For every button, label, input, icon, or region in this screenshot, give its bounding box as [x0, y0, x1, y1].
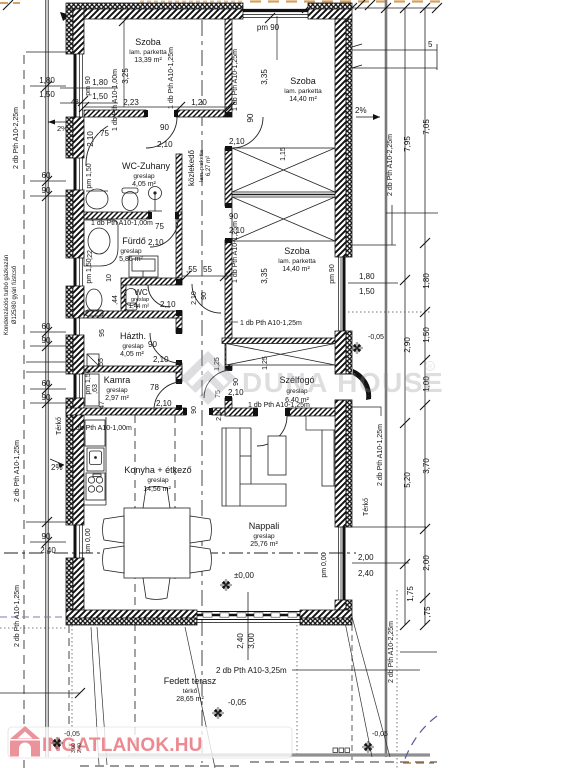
svg-text:-0,05: -0,05 [372, 731, 388, 738]
svg-text:14,56 m²: 14,56 m² [143, 486, 171, 493]
svg-text:pm 1,50: pm 1,50 [86, 258, 93, 283]
svg-text:2,00: 2,00 [422, 555, 431, 571]
right wall window (pm90) [339, 257, 345, 600]
svg-text:90: 90 [201, 292, 208, 300]
wardrobe divider line top-right rooms [232, 194, 335, 196]
svg-text:1 db Pth A10-1,25m: 1 db Pth A10-1,25m [248, 402, 310, 409]
kitchen window W6 [74, 525, 77, 558]
svg-text:2,00: 2,00 [358, 553, 374, 562]
left margin horizontal dim segs [0, 52, 80, 693]
svg-text:2 db Pth A10-2,25m: 2 db Pth A10-2,25m [13, 107, 20, 169]
corridor left wall (x=176-182) blocks [176, 154, 182, 284]
in-plan dimension texts [71, 23, 280, 408]
svg-text:90: 90 [229, 212, 238, 221]
svg-text:90: 90 [42, 186, 51, 195]
svg-text:Szoba: Szoba [135, 37, 161, 47]
corridor right wall (x=225-232) blocks [225, 19, 232, 117]
szélfogó bottom wall (y=408-416) [225, 408, 257, 416]
kamra door [154, 382, 182, 410]
rotated in-plan dims [85, 47, 287, 554]
svg-text:2,10: 2,10 [191, 291, 198, 305]
window W2 [74, 158, 77, 190]
svg-text:1,50: 1,50 [359, 287, 375, 296]
svg-text:2,40: 2,40 [236, 633, 245, 649]
wall arrows right top [352, 44, 362, 47]
small dim helper lines [60, 16, 277, 276]
svg-text:2,10: 2,10 [157, 140, 173, 149]
wall kamra/konyha (y=408-415) [66, 408, 186, 415]
svg-text:-0,05: -0,05 [368, 334, 384, 341]
bottom wall left segment [66, 610, 197, 618]
wall szoba-L bottom (y=110-117) [84, 110, 146, 117]
szélfogó bench X box [226, 344, 335, 366]
svg-text:WC-Zuhany: WC-Zuhany [122, 161, 171, 171]
svg-text:Szoba: Szoba [284, 246, 310, 256]
svg-text:lam. parketta: lam. parketta [199, 149, 205, 182]
right wall blocks [335, 19, 352, 610]
fürdő washbasin / washer [129, 256, 158, 277]
svg-text:,75: ,75 [423, 606, 432, 618]
svg-text:4,05 m²: 4,05 m² [120, 351, 144, 358]
svg-text:2,40: 2,40 [40, 546, 56, 555]
left rotated texts [4, 107, 68, 647]
svg-text:7,05: 7,05 [422, 119, 431, 135]
svg-text:Konyha + étkező: Konyha + étkező [124, 465, 191, 475]
svg-text:,22: ,22 [87, 250, 94, 260]
svg-text:Kondenzációs turbó gázkazán: Kondenzációs turbó gázkazán [4, 255, 10, 335]
svg-text:lam. parketta: lam. parketta [129, 49, 167, 56]
svg-text:2,90: 2,90 [403, 337, 412, 353]
svg-text:Kamra: Kamra [104, 375, 131, 385]
szoba-L door [146, 117, 177, 148]
wall házth/kamra (y=366-372) [84, 366, 182, 372]
svg-text:1,44 m²: 1,44 m² [129, 304, 149, 310]
svg-text:2%: 2% [355, 106, 367, 115]
svg-text:greslap: greslap [122, 343, 144, 350]
svg-text:,55: ,55 [98, 358, 105, 368]
svg-text:Szoba: Szoba [290, 76, 316, 86]
szoba-R top door [232, 117, 263, 148]
fürdő door [150, 219, 178, 247]
sideboard right wall [322, 425, 334, 486]
svg-text:60: 60 [42, 379, 51, 388]
INGATLANOK.HU watermark [8, 727, 292, 758]
svg-text:48: 48 [71, 99, 79, 106]
svg-text:pm 90: pm 90 [85, 76, 92, 96]
svg-text:1,50: 1,50 [422, 327, 431, 343]
svg-text:lam. parketta: lam. parketta [278, 258, 316, 265]
nappali rug/table by wall top [306, 416, 335, 430]
wardrobe X box 2 [232, 197, 335, 241]
sink [87, 448, 104, 471]
svg-text:1 db Pth A10-1,00m: 1 db Pth A10-1,00m [91, 220, 153, 227]
svg-text:DUNA HOUSE: DUNA HOUSE [242, 367, 444, 398]
terrace bottom thick gray [98, 753, 430, 756]
svg-text:1 db Pth A10-1,25m: 1 db Pth A10-1,25m [232, 49, 239, 111]
top wall right corner segment [308, 3, 352, 9]
WC toilet [124, 289, 138, 306]
wall fürdő top (y=212-219) [84, 212, 150, 219]
top-left corner tick [3, 0, 13, 10]
svg-text:90: 90 [42, 336, 51, 345]
svg-text:greslap: greslap [133, 173, 155, 180]
door arcs [86, 117, 369, 446]
WC-Zuhany toilet [122, 192, 138, 211]
svg-text:pm 1,50: pm 1,50 [85, 369, 92, 394]
orange boundary dashes top [250, 0, 440, 2]
svg-text:Térkő: Térkő [56, 417, 63, 435]
svg-text:2,10: 2,10 [156, 399, 172, 408]
terrace sliding door [197, 612, 300, 623]
orange dashes bottom right [403, 762, 434, 764]
szélfogó door from corridor [204, 370, 232, 398]
svg-text:2 db Pth A10-2,25m: 2 db Pth A10-2,25m [388, 621, 395, 683]
svg-text:3,35: 3,35 [260, 268, 269, 284]
WC-Zuhany shower [149, 187, 162, 200]
svg-text:lam. parketta: lam. parketta [284, 88, 322, 95]
svg-text:3,00: 3,00 [247, 633, 256, 649]
left blue dashed + dotted bottom [0, 616, 66, 618]
svg-text:,44: ,44 [112, 295, 119, 305]
fürdő toilet (left wall) [86, 289, 102, 311]
svg-text:1,80: 1,80 [92, 78, 108, 87]
stove [86, 473, 105, 500]
svg-text:pm 1,50: pm 1,50 [86, 163, 93, 188]
window W5 [74, 374, 77, 398]
svg-text:pm 0,00: pm 0,00 [85, 528, 92, 553]
svg-text:1 db Pth A10-1,25m: 1 db Pth A10-1,25m [168, 47, 175, 109]
svg-text:,55: ,55 [186, 265, 198, 274]
sofa L [222, 428, 286, 506]
svg-text:1,20: 1,20 [191, 98, 207, 107]
svg-text:2,40: 2,40 [358, 569, 374, 578]
dashed bottom line [250, 761, 437, 763]
svg-text:2 db Pth A10-1,25m: 2 db Pth A10-1,25m [377, 424, 384, 486]
svg-text:2,10: 2,10 [229, 137, 245, 146]
svg-text:greslap: greslap [120, 248, 142, 255]
small squares [333, 748, 350, 753]
fürdő corner bathtub [84, 220, 118, 266]
top margin ticks [302, 3, 312, 13]
svg-text:greslap: greslap [131, 297, 149, 303]
svg-text:greslap: greslap [253, 533, 275, 540]
svg-text:7,95: 7,95 [403, 136, 412, 152]
svg-text:95: 95 [99, 329, 106, 337]
svg-text:1 db Pth A10-1,25m: 1 db Pth A10-1,25m [232, 221, 239, 283]
svg-text:60: 60 [42, 171, 51, 180]
svg-text:2,10: 2,10 [216, 407, 223, 421]
window W1 pm90 [74, 54, 77, 117]
svg-text:2,10: 2,10 [86, 131, 95, 147]
dining table [124, 508, 190, 578]
svg-text:4,05 m²: 4,05 m² [132, 181, 156, 188]
svg-text:greslap: greslap [106, 387, 128, 394]
svg-text:±0,00: ±0,00 [234, 571, 255, 580]
svg-text:25,76 m²: 25,76 m² [250, 541, 278, 548]
svg-text:1,50: 1,50 [39, 90, 55, 99]
svg-text:R: R [428, 365, 433, 371]
svg-text:2,10: 2,10 [153, 355, 169, 364]
svg-text:90: 90 [246, 113, 255, 122]
svg-text:Ø125/80 gyári füstcső: Ø125/80 gyári füstcső [12, 265, 18, 324]
svg-text:14,40 m²: 14,40 m² [289, 96, 317, 103]
kitchen counter [105, 417, 107, 505]
wc-zuhany door (75) [86, 126, 108, 166]
svg-text:pm 0,00: pm 0,00 [321, 552, 328, 577]
top wall left segment [66, 3, 243, 9]
section line horizontal [4, 552, 356, 554]
svg-text:28,65 m²: 28,65 m² [176, 696, 204, 703]
svg-text:2 db Pth A10-2,25m: 2 db Pth A10-2,25m [387, 134, 394, 196]
svg-text:pm 90: pm 90 [257, 23, 280, 32]
svg-text:,63: ,63 [92, 384, 99, 394]
WC box walls [121, 278, 182, 285]
svg-text:2,97 m²: 2,97 m² [105, 395, 129, 402]
svg-text:75: 75 [155, 222, 164, 231]
blue dashed arc bottom right [403, 716, 437, 764]
svg-text:1,75: 1,75 [406, 586, 415, 602]
svg-text:1,80: 1,80 [359, 272, 375, 281]
svg-text:1 db Pth A10-1,25m: 1 db Pth A10-1,25m [240, 320, 302, 327]
svg-text:pm 90: pm 90 [329, 264, 336, 284]
svg-text:2,23: 2,23 [123, 98, 139, 107]
svg-text:90: 90 [42, 532, 51, 541]
corridor rotated label [187, 149, 212, 186]
entrance door leaf (right wall) [335, 369, 371, 400]
left wall blocks [66, 9, 84, 610]
svg-text:3,70: 3,70 [422, 458, 431, 474]
chairs [103, 487, 212, 600]
házth boiler [87, 354, 99, 366]
left dashed plot line [23, 55, 25, 768]
svg-text:60: 60 [42, 322, 51, 331]
leader diagonals [91, 602, 390, 768]
svg-text:térkő: térkő [183, 688, 198, 695]
nappali right window [343, 527, 346, 600]
kamra shelf [85, 374, 99, 406]
svg-text:Nappali: Nappali [249, 521, 280, 531]
svg-text:13,39 m²: 13,39 m² [134, 57, 162, 64]
szélfogó top wall (y=340-347) [222, 338, 335, 344]
svg-text:Fedett terasz: Fedett terasz [164, 676, 217, 686]
házth door [150, 333, 180, 363]
svg-text:90: 90 [191, 406, 198, 414]
svg-text:1,15: 1,15 [280, 147, 287, 161]
svg-text:1 db Pth A10-1,00m: 1 db Pth A10-1,00m [112, 69, 119, 131]
svg-text:INGATLANOK.HU: INGATLANOK.HU [42, 735, 203, 756]
entrance outer arc [352, 374, 369, 398]
terrace dims [247, 592, 249, 660]
svg-text:2,40: 2,40 [77, 743, 83, 753]
window W4 [74, 318, 77, 335]
left dim line vertical [45, 0, 47, 757]
left wall windows [75, 54, 83, 558]
svg-text:5: 5 [428, 40, 433, 49]
nappali door from szélfogó [257, 416, 287, 446]
DUNA HOUSE watermark [180, 351, 444, 405]
svg-text:90: 90 [148, 340, 157, 349]
svg-text:75: 75 [100, 129, 109, 138]
wc outer door to corridor [192, 284, 221, 313]
svg-text:10: 10 [106, 274, 113, 282]
svg-text:-0,05: -0,05 [228, 698, 247, 707]
WC-Zuhany: round basin [86, 189, 108, 209]
svg-text:közlekedő: közlekedő [187, 149, 196, 186]
left margin labels [39, 76, 56, 555]
wall fürdő/WC bottom (y=311-318) [84, 311, 182, 318]
room titles [104, 37, 322, 703]
svg-text:2 db Pth A10-3,25m: 2 db Pth A10-3,25m [216, 666, 287, 675]
svg-text:14,40 m²: 14,40 m² [282, 266, 310, 273]
svg-text:1,80: 1,80 [39, 76, 55, 85]
window W3 [74, 258, 77, 286]
svg-text:Fürdő: Fürdő [122, 236, 146, 246]
svg-text:1 db Pth A10-1,00m: 1 db Pth A10-1,00m [70, 425, 132, 432]
svg-text:5,20: 5,20 [403, 472, 412, 488]
svg-text:WC: WC [134, 288, 148, 297]
svg-text:6,27 m²: 6,27 m² [206, 156, 212, 176]
wardrobe X box 1 (top-right szoba) [232, 148, 335, 192]
svg-text:90: 90 [160, 123, 169, 132]
svg-text:90: 90 [42, 393, 51, 402]
door frame blocks [144, 110, 290, 416]
svg-text:Házth.: Házth. [120, 331, 146, 341]
svg-text:2,10: 2,10 [148, 238, 164, 247]
svg-text:1,50: 1,50 [92, 92, 108, 101]
svg-text:,47: ,47 [99, 401, 106, 411]
svg-text:Térkő: Térkő [363, 498, 370, 516]
top window [243, 11, 308, 18]
svg-text:3,25: 3,25 [121, 68, 130, 84]
bottom wall right segment [300, 610, 352, 618]
svg-text:5,86 m²: 5,86 m² [119, 256, 143, 263]
svg-text:1,80: 1,80 [422, 273, 431, 289]
coffee table [268, 436, 286, 475]
svg-text:greslap: greslap [147, 477, 169, 484]
szoba-M door [232, 208, 262, 240]
svg-text:3,35: 3,35 [260, 69, 269, 85]
svg-text:2,10: 2,10 [160, 300, 176, 309]
svg-text:-0,05: -0,05 [64, 731, 80, 738]
svg-text:55: 55 [203, 265, 212, 274]
svg-text:2 db Pth A10-1,25m: 2 db Pth A10-1,25m [14, 585, 21, 647]
svg-text:78: 78 [150, 383, 159, 392]
svg-text:2 db Pth A10-1,25m: 2 db Pth A10-1,25m [14, 440, 21, 502]
wc inner door [148, 285, 170, 307]
